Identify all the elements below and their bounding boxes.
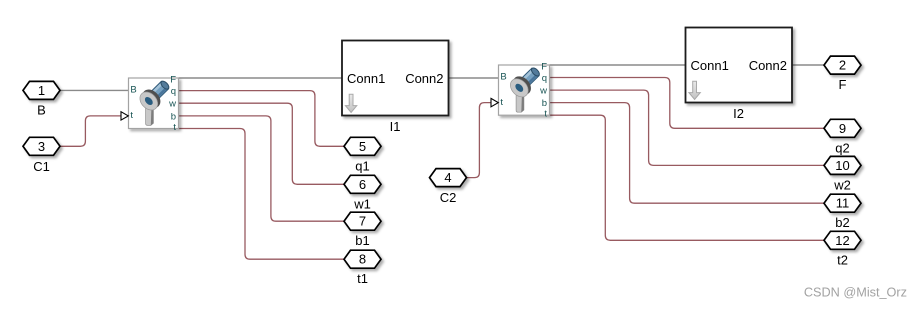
svg-text:F: F [170, 75, 176, 86]
svg-text:CSDN @Mist_Orz: CSDN @Mist_Orz [804, 286, 907, 300]
svg-text:F: F [839, 77, 847, 92]
svg-text:8: 8 [359, 252, 366, 267]
svg-text:F: F [541, 62, 547, 73]
svg-text:Conn1: Conn1 [691, 58, 729, 73]
svg-text:B: B [130, 85, 136, 96]
svg-text:C1: C1 [33, 159, 50, 174]
svg-text:1: 1 [38, 83, 45, 98]
svg-text:t: t [173, 122, 176, 133]
svg-text:t2: t2 [837, 252, 848, 267]
svg-text:t: t [544, 109, 547, 120]
svg-text:2: 2 [839, 58, 846, 73]
svg-text:q2: q2 [835, 140, 849, 155]
svg-text:6: 6 [359, 177, 366, 192]
svg-text:B: B [37, 102, 46, 117]
svg-text:b: b [542, 98, 547, 109]
svg-text:5: 5 [359, 139, 366, 154]
svg-text:t1: t1 [357, 271, 368, 286]
svg-text:q: q [171, 86, 176, 97]
svg-text:w: w [539, 86, 547, 97]
svg-text:Conn2: Conn2 [749, 58, 787, 73]
svg-text:9: 9 [839, 121, 846, 136]
svg-text:4: 4 [444, 170, 451, 185]
svg-text:b: b [171, 111, 176, 122]
svg-text:q1: q1 [355, 158, 369, 173]
svg-text:Conn2: Conn2 [405, 71, 443, 86]
svg-text:b2: b2 [835, 215, 849, 230]
svg-text:C2: C2 [440, 190, 457, 205]
svg-text:w1: w1 [353, 196, 371, 211]
svg-text:3: 3 [38, 139, 45, 154]
svg-text:t: t [500, 97, 503, 108]
svg-text:7: 7 [359, 214, 366, 229]
svg-text:w: w [168, 99, 176, 110]
svg-text:Conn1: Conn1 [347, 71, 385, 86]
svg-text:10: 10 [835, 158, 849, 173]
svg-text:b1: b1 [355, 233, 369, 248]
svg-text:I1: I1 [390, 119, 401, 134]
svg-text:I2: I2 [733, 106, 744, 121]
svg-text:12: 12 [835, 233, 849, 248]
svg-text:t: t [130, 110, 133, 121]
svg-text:B: B [500, 72, 506, 83]
svg-text:q: q [542, 73, 547, 84]
svg-text:w2: w2 [833, 177, 851, 192]
svg-text:11: 11 [836, 196, 850, 211]
